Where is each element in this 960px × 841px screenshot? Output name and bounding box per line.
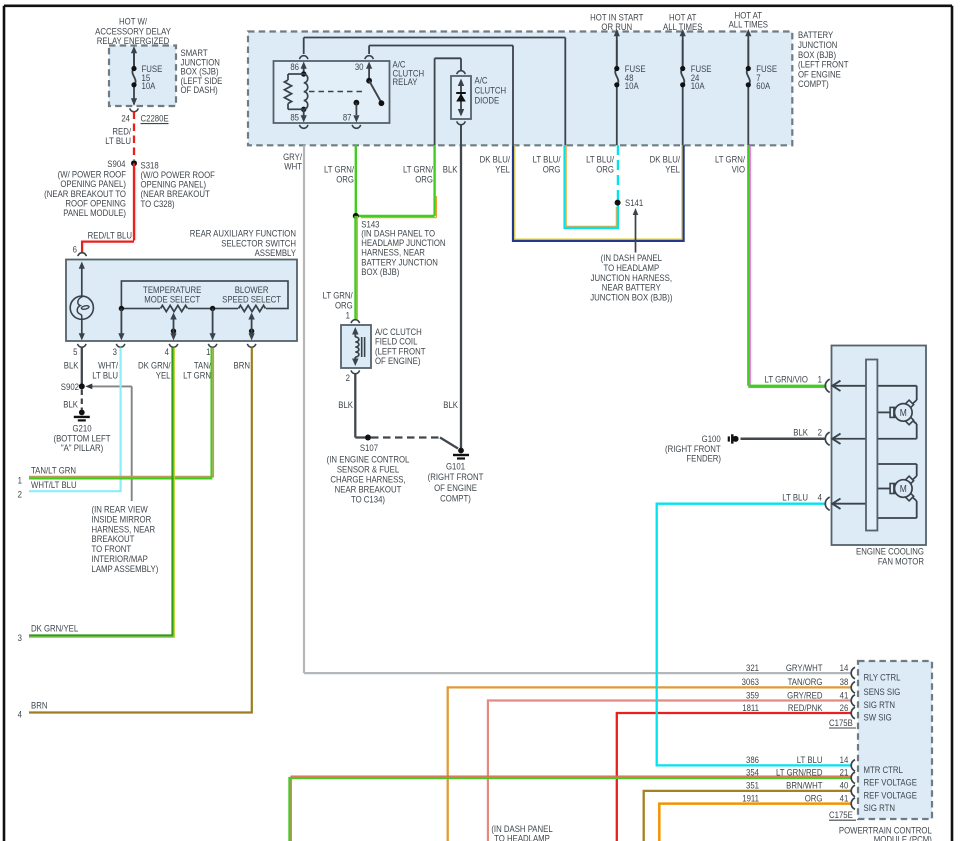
svg-text:LT BLU: LT BLU [92, 370, 118, 381]
svg-text:BRN/WHT: BRN/WHT [786, 780, 823, 791]
svg-text:ORG: ORG [543, 164, 561, 175]
svg-text:LT BLU: LT BLU [782, 492, 808, 503]
svg-text:ALL TIMES: ALL TIMES [663, 21, 703, 32]
svg-text:G101: G101 [446, 461, 465, 472]
svg-text:RELAY ENERGIZED: RELAY ENERGIZED [97, 35, 169, 46]
svg-text:MODULE (PCM): MODULE (PCM) [874, 834, 932, 841]
svg-text:REF VOLTAGE: REF VOLTAGE [864, 790, 918, 801]
svg-text:351: 351 [746, 780, 759, 791]
svg-text:1: 1 [818, 374, 823, 385]
svg-text:RED/LT BLU: RED/LT BLU [88, 230, 132, 241]
svg-text:DIODE: DIODE [475, 95, 500, 106]
svg-text:TO C134): TO C134) [351, 494, 385, 505]
svg-text:85: 85 [290, 112, 299, 123]
svg-text:OF DASH): OF DASH) [181, 84, 218, 95]
svg-text:41: 41 [840, 793, 849, 804]
svg-text:SIG RTN: SIG RTN [864, 699, 895, 710]
svg-text:SW SIG: SW SIG [864, 712, 892, 723]
svg-text:ORG: ORG [335, 300, 353, 311]
svg-text:1: 1 [346, 310, 351, 321]
svg-text:MODE SELECT: MODE SELECT [144, 294, 201, 305]
svg-text:YEL: YEL [665, 164, 680, 175]
svg-text:WHT: WHT [284, 161, 302, 172]
svg-text:87: 87 [343, 112, 352, 123]
svg-text:386: 386 [746, 754, 759, 765]
svg-text:BLK: BLK [63, 399, 78, 410]
svg-text:"A" PILLAR): "A" PILLAR) [61, 442, 103, 453]
svg-text:30: 30 [355, 61, 364, 72]
svg-text:SENS SIG: SENS SIG [864, 686, 901, 697]
svg-text:ORG: ORG [805, 793, 823, 804]
svg-text:4: 4 [165, 346, 170, 357]
svg-text:6: 6 [73, 244, 78, 255]
svg-text:359: 359 [746, 690, 759, 701]
svg-text:TAN/LT GRN: TAN/LT GRN [31, 465, 76, 476]
svg-text:GRY/RED: GRY/RED [787, 690, 822, 701]
svg-text:JUNCTION BOX (BJB)): JUNCTION BOX (BJB)) [590, 292, 672, 303]
svg-text:38: 38 [840, 676, 849, 687]
svg-text:YEL: YEL [495, 164, 510, 175]
svg-text:14: 14 [840, 754, 849, 765]
svg-text:FENDER): FENDER) [686, 453, 721, 464]
svg-text:10A: 10A [625, 80, 639, 91]
svg-text:60A: 60A [756, 80, 770, 91]
svg-text:5: 5 [73, 346, 78, 357]
svg-text:SIG RTN: SIG RTN [864, 802, 895, 813]
svg-text:RLY CTRL: RLY CTRL [864, 672, 901, 683]
svg-text:TAN/ORG: TAN/ORG [788, 676, 823, 687]
svg-text:41: 41 [840, 690, 849, 701]
svg-text:ORG: ORG [415, 174, 433, 185]
svg-text:354: 354 [746, 767, 759, 778]
svg-text:86: 86 [290, 61, 299, 72]
svg-text:BLK: BLK [64, 360, 79, 371]
svg-text:LT GRN: LT GRN [183, 370, 211, 381]
svg-text:OF ENGINE): OF ENGINE) [375, 355, 421, 366]
svg-text:BRN: BRN [31, 700, 47, 711]
svg-text:BLK: BLK [793, 427, 808, 438]
svg-text:3063: 3063 [742, 676, 760, 687]
svg-text:FAN MOTOR: FAN MOTOR [878, 556, 924, 567]
svg-text:10A: 10A [691, 80, 705, 91]
svg-text:RELAY: RELAY [393, 76, 418, 87]
svg-text:S141: S141 [625, 197, 643, 208]
svg-text:COMPT): COMPT) [798, 78, 829, 89]
svg-text:C175B: C175B [829, 717, 853, 728]
svg-text:21: 21 [840, 767, 849, 778]
svg-text:3: 3 [18, 632, 23, 643]
svg-text:S107: S107 [360, 442, 378, 453]
svg-text:LAMP ASSEMBLY): LAMP ASSEMBLY) [92, 563, 159, 574]
svg-text:TO C328): TO C328) [141, 198, 175, 209]
svg-text:4: 4 [18, 709, 23, 720]
svg-text:3: 3 [113, 346, 118, 357]
svg-text:ORG: ORG [336, 174, 354, 185]
svg-text:40: 40 [840, 780, 849, 791]
svg-text:24: 24 [121, 113, 130, 124]
svg-text:M: M [900, 407, 907, 418]
svg-text:BOX (BJB): BOX (BJB) [361, 266, 399, 277]
svg-text:ORG: ORG [596, 164, 614, 175]
svg-text:ALL TIMES: ALL TIMES [729, 19, 769, 30]
svg-text:10A: 10A [142, 80, 156, 91]
svg-text:LT GRN/VIO: LT GRN/VIO [765, 374, 809, 385]
svg-text:M: M [900, 483, 907, 494]
svg-text:SPEED SELECT: SPEED SELECT [222, 294, 282, 305]
svg-text:BLK: BLK [338, 399, 353, 410]
svg-text:DK GRN/YEL: DK GRN/YEL [31, 623, 78, 634]
svg-text:1: 1 [206, 346, 211, 357]
svg-text:ASSEMBLY: ASSEMBLY [255, 247, 297, 258]
svg-text:4: 4 [818, 492, 823, 503]
svg-text:PANEL MODULE): PANEL MODULE) [63, 207, 126, 218]
svg-text:BLK: BLK [443, 399, 458, 410]
svg-text:BRN: BRN [234, 360, 250, 371]
svg-text:C175E: C175E [829, 809, 853, 820]
svg-text:321: 321 [746, 662, 759, 673]
svg-text:OR RUN: OR RUN [601, 21, 632, 32]
svg-text:LT BLU: LT BLU [105, 135, 131, 146]
svg-text:(RIGHT FRONT: (RIGHT FRONT [428, 471, 484, 482]
svg-text:LT BLU: LT BLU [797, 754, 823, 765]
svg-text:1: 1 [18, 475, 23, 486]
svg-text:2: 2 [346, 372, 351, 383]
svg-text:OF ENGINE: OF ENGINE [434, 482, 477, 493]
svg-text:REF VOLTAGE: REF VOLTAGE [864, 777, 918, 788]
svg-text:2: 2 [818, 427, 823, 438]
svg-text:C2280E: C2280E [141, 113, 169, 124]
svg-text:14: 14 [840, 662, 849, 673]
svg-text:YEL: YEL [156, 370, 171, 381]
svg-text:TO HEADLAMP: TO HEADLAMP [494, 833, 550, 841]
svg-text:WHT/LT BLU: WHT/LT BLU [31, 479, 77, 490]
svg-text:MTR CTRL: MTR CTRL [864, 764, 904, 775]
svg-text:RED/PNK: RED/PNK [788, 702, 823, 713]
svg-text:S902: S902 [61, 381, 79, 392]
svg-text:2: 2 [18, 489, 23, 500]
svg-text:LT GRN/RED: LT GRN/RED [776, 767, 822, 778]
svg-text:BLK: BLK [443, 164, 458, 175]
svg-text:VIO: VIO [732, 164, 746, 175]
svg-text:26: 26 [840, 702, 849, 713]
svg-text:1811: 1811 [742, 702, 759, 713]
svg-text:COMPT): COMPT) [440, 493, 471, 504]
svg-text:S904: S904 [107, 158, 125, 169]
svg-text:1911: 1911 [742, 793, 759, 804]
svg-text:GRY/WHT: GRY/WHT [786, 662, 823, 673]
